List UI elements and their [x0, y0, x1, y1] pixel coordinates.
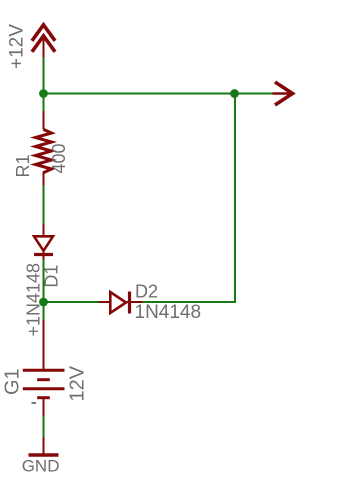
supply symbol +12V (double chevron) — [33, 25, 54, 51]
svg-text:+12V: +12V — [7, 24, 28, 69]
ground symbol bar — [29, 453, 59, 456]
svg-text:12V: 12V — [67, 365, 89, 401]
battery G1 plate long 2 — [23, 387, 65, 390]
junction node B — [230, 89, 239, 98]
battery G1 plate short 1 — [37, 378, 50, 381]
diode D2 cathode bar — [128, 292, 131, 314]
wire from +12V to node A — [43, 58, 45, 94]
diode D2 pin right — [126, 301, 143, 303]
junction node A — [39, 89, 48, 98]
svg-text:1N4148: 1N4148 — [135, 302, 202, 323]
diode D1 triangle — [34, 236, 53, 251]
output arrow pin — [273, 92, 292, 95]
battery G1 pin top — [43, 320, 45, 369]
battery G1 plate long 1 — [23, 369, 65, 372]
wire lower horizontal to node C — [44, 301, 100, 303]
svg-text:G1: G1 — [2, 368, 24, 395]
svg-text:+1N4148: +1N4148 — [24, 263, 44, 337]
svg-text:D1: D1 — [42, 265, 62, 288]
junction node C — [39, 298, 48, 307]
ground pin — [43, 437, 45, 454]
diode D1 cathode bar — [34, 253, 53, 256]
svg-text:400: 400 — [49, 143, 69, 173]
wire battery to GND — [43, 416, 45, 438]
battery G1 pin bottom — [43, 399, 45, 417]
wire node C to battery — [43, 302, 45, 321]
diode D1 pin bottom — [43, 250, 45, 260]
svg-text:R1: R1 — [13, 154, 33, 177]
diode D2 pin left — [99, 301, 110, 303]
pin of +12V symbol — [43, 37, 45, 58]
resistor R1 pin bottom — [43, 172, 45, 187]
wire D1 to node C — [43, 260, 45, 303]
wire top horizontal — [44, 93, 278, 95]
svg-text:D2: D2 — [135, 281, 158, 301]
wire node A to R1 — [43, 94, 45, 112]
wire R1 to D1 — [43, 186, 45, 225]
diode D2 triangle — [110, 292, 126, 313]
battery G1 plate short 2 — [37, 396, 50, 399]
wire right vertical — [142, 94, 235, 303]
diode D1 pin top — [43, 224, 45, 236]
resistor R1 zigzag — [36, 129, 52, 172]
resistor R1 pin top — [43, 111, 45, 130]
battery G1 minus mark — [32, 402, 37, 404]
svg-text:GND: GND — [22, 457, 60, 476]
output arrow head — [277, 83, 293, 104]
